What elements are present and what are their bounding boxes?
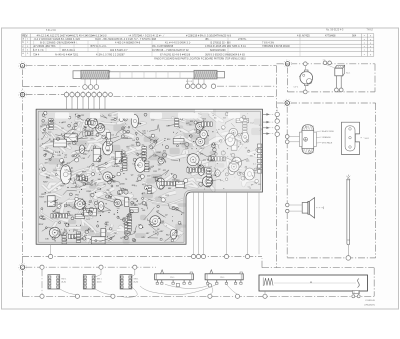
svg-text:(A-B): (A-B) <box>61 280 66 283</box>
svg-text:Q2: Q2 <box>149 137 152 139</box>
svg-text:T3: T3 <box>142 145 144 147</box>
svg-text:RADIO P.C.BOARD AND PARTS: RADIO P.C.BOARD AND PARTS LOCATION P.C.B… <box>154 57 246 60</box>
svg-text:4R7: 4R7 <box>68 143 71 145</box>
svg-text:Q2: Q2 <box>114 233 117 235</box>
svg-text:C45: C45 <box>158 165 161 167</box>
svg-text:No. 56-0123 4-5: No. 56-0123 4-5 <box>326 29 344 32</box>
svg-text:C22: C22 <box>131 145 134 147</box>
svg-text:R12: R12 <box>74 230 77 232</box>
svg-text:C22: C22 <box>124 163 127 165</box>
svg-text:67 /%2/91 62 4-8 9 #40/1/8: 67 /%2/91 62 4-8 9 #40/1/8 <box>160 53 191 56</box>
svg-text:1C2: 1C2 <box>90 133 93 135</box>
svg-text:Q2: Q2 <box>65 155 68 157</box>
svg-text:R15: R15 <box>166 195 169 197</box>
svg-text:R12: R12 <box>129 220 132 222</box>
svg-text:R12: R12 <box>90 231 93 233</box>
svg-text:R207: R207 <box>113 159 118 161</box>
svg-text:967-6 4%.1: 967-6 4%.1 <box>62 49 75 52</box>
svg-text:41. # 4 4 0 5 0454/ 3 1-: 41. # 4 4 0 5 0454/ 3 1- <box>165 42 191 45</box>
svg-text:R207: R207 <box>39 224 44 226</box>
svg-text:R207: R207 <box>155 181 160 183</box>
svg-text:1C2: 1C2 <box>58 235 61 237</box>
svg-text:D: D <box>286 62 288 66</box>
svg-text:472: 472 <box>138 175 141 177</box>
svg-text:1C2: 1C2 <box>197 132 200 134</box>
svg-text:683: 683 <box>121 184 124 186</box>
svg-text:/86 . ..: /86 . .. <box>205 38 212 41</box>
svg-text:T3: T3 <box>121 167 123 169</box>
svg-text:R207: R207 <box>86 150 91 152</box>
svg-text:T3: T3 <box>103 154 105 156</box>
svg-text:6/ 0/ . 23%6/5 -2% %255404#: 6/ 0/ . 23%6/5 -2% %255404# 4 /. <box>40 42 78 45</box>
svg-text:0.1: 0.1 <box>48 192 51 194</box>
svg-text:R207: R207 <box>39 197 44 199</box>
svg-text:C45: C45 <box>196 123 199 125</box>
svg-text:Q2: Q2 <box>87 229 90 231</box>
svg-text:824%#1%099: 824%#1%099 <box>210 49 226 52</box>
svg-text:C45: C45 <box>97 169 100 171</box>
svg-text:C-5910-B: C-5910-B <box>365 300 375 302</box>
svg-text:C22: C22 <box>178 224 181 226</box>
svg-text:T3: T3 <box>62 239 64 241</box>
svg-text:T3: T3 <box>125 179 127 181</box>
svg-text:C8: C8 <box>152 166 154 168</box>
svg-text:0.1: 0.1 <box>153 232 156 234</box>
svg-text:MTG FACE: MTG FACE <box>322 142 333 145</box>
svg-text:0.1: 0.1 <box>55 152 58 154</box>
svg-text:R12: R12 <box>68 171 71 173</box>
svg-text:C: C <box>21 265 23 269</box>
svg-text:TR4: TR4 <box>75 195 79 197</box>
svg-text:R12: R12 <box>72 133 75 135</box>
svg-text:4R7: 4R7 <box>136 181 139 183</box>
svg-text:91 558 08.- -7196.50-%2/8 67: 91 558 08.- -7196.50-%2/8 67 02 <box>152 49 189 52</box>
svg-text:T3: T3 <box>77 239 79 241</box>
svg-text:(A-B): (A-B) <box>134 280 139 283</box>
svg-text:R12: R12 <box>97 189 100 191</box>
svg-text:4R7: 4R7 <box>160 231 163 233</box>
svg-text:C45: C45 <box>141 237 144 239</box>
svg-text:2737/6-: 2737/6- <box>238 38 247 41</box>
svg-text:R15: R15 <box>99 123 102 125</box>
svg-text:Q2: Q2 <box>73 237 76 239</box>
svg-text:4R7: 4R7 <box>66 163 69 165</box>
svg-text:4R7: 4R7 <box>116 166 119 168</box>
svg-text:1C2: 1C2 <box>174 180 177 182</box>
svg-text:472: 472 <box>163 151 166 153</box>
svg-text:C45: C45 <box>113 199 116 201</box>
svg-text:R207: R207 <box>43 181 48 183</box>
svg-text:472: 472 <box>163 170 166 172</box>
svg-text:R12: R12 <box>107 150 110 152</box>
svg-text:1C2: 1C2 <box>180 143 183 145</box>
svg-text:C45: C45 <box>111 181 114 183</box>
svg-text:5.6: 5.6 <box>117 208 120 210</box>
svg-text:C8: C8 <box>40 126 42 128</box>
svg-text:C8: C8 <box>134 231 136 233</box>
svg-text:683: 683 <box>126 147 129 149</box>
svg-text:C22: C22 <box>111 157 114 159</box>
svg-text:R15: R15 <box>83 154 86 156</box>
svg-text:C22: C22 <box>81 115 84 117</box>
svg-text:R12: R12 <box>122 156 125 158</box>
svg-text:R12: R12 <box>108 115 111 117</box>
svg-text:904: 904 <box>352 34 357 37</box>
svg-text:4R7: 4R7 <box>73 183 76 185</box>
svg-text:ORANGE: ORANGE <box>322 136 331 139</box>
svg-text:4 8%4 #/-2815 280 282 7283 0-: 4 8%4 #/-2815 280 282 7283 0- 8 41 <box>205 45 246 48</box>
svg-text:R207: R207 <box>50 141 55 143</box>
svg-text:0.1: 0.1 <box>64 157 67 159</box>
svg-text:683: 683 <box>42 133 45 135</box>
svg-text:Q2: Q2 <box>130 204 133 206</box>
svg-text:R207: R207 <box>87 191 92 193</box>
svg-text:1C2: 1C2 <box>75 122 78 124</box>
svg-text:5.6: 5.6 <box>87 166 90 168</box>
svg-text:7H 6J: 7H 6J <box>367 29 374 32</box>
svg-text:4 .3% 1 0 7/80 2 2 2/8287: 4 .3% 1 0 7/80 2 2 2/8287 <box>96 53 125 56</box>
svg-text:R207: R207 <box>159 159 164 161</box>
svg-text:R15: R15 <box>125 224 128 226</box>
svg-text:0.1: 0.1 <box>142 193 145 195</box>
svg-text:472: 472 <box>203 160 206 162</box>
svg-text:R12: R12 <box>54 170 57 172</box>
svg-text:C45: C45 <box>57 155 60 157</box>
svg-text:R207: R207 <box>41 194 46 196</box>
svg-text:1C2: 1C2 <box>155 233 158 235</box>
svg-text:T3: T3 <box>65 240 67 242</box>
svg-text:0.1: 0.1 <box>135 198 138 200</box>
svg-text:BLACK SIDE: BLACK SIDE <box>322 130 334 133</box>
svg-text:683: 683 <box>90 138 93 140</box>
svg-text:-27 26934 .484 73%: -27 26934 .484 73% <box>33 45 56 48</box>
svg-text:T3: T3 <box>48 132 50 134</box>
svg-text:A: A <box>22 64 24 68</box>
svg-text:R15: R15 <box>137 165 140 167</box>
svg-text:C22: C22 <box>138 204 141 206</box>
svg-text:4R7: 4R7 <box>67 212 70 214</box>
svg-text:472: 472 <box>147 175 150 177</box>
svg-text:4R7: 4R7 <box>134 205 137 207</box>
svg-text:R12: R12 <box>166 235 169 237</box>
svg-text:72# 4: 72# 4 <box>33 53 40 56</box>
svg-text:C8: C8 <box>44 202 46 204</box>
svg-text:36/9 9 3 692/09 2 8%662#24: 36/9 9 3 692/09 2 8%662#24 8.4 83 <box>205 53 245 56</box>
svg-text:5 61-2 04: 5 61-2 04 <box>46 30 56 32</box>
svg-text:. #-4 1 %%%%3/ %1626 53- 13: . #-4 1 %%%%3/ %1626 53- 130#4 3. 026 <box>33 38 80 41</box>
svg-text:C45: C45 <box>185 148 188 150</box>
svg-text:C45: C45 <box>82 158 85 160</box>
svg-text:472: 472 <box>186 123 189 125</box>
svg-text:R12: R12 <box>167 139 170 141</box>
svg-text:T3: T3 <box>95 182 97 184</box>
svg-text:C8: C8 <box>69 173 71 175</box>
svg-text:R12: R12 <box>79 181 82 183</box>
svg-text:4 400 3 4 660869 7#-8: 4 400 3 4 660869 7#-8 <box>115 42 141 45</box>
svg-text:472: 472 <box>187 155 190 157</box>
svg-text:R207: R207 <box>206 187 211 189</box>
svg-text:683: 683 <box>111 120 114 122</box>
svg-text:Q2: Q2 <box>121 205 124 207</box>
svg-text:E: E <box>286 101 288 105</box>
svg-text:5.6: 5.6 <box>132 164 135 166</box>
svg-text:C8: C8 <box>55 216 57 218</box>
svg-text:R15: R15 <box>118 194 121 196</box>
svg-text:R12: R12 <box>75 186 78 188</box>
svg-text:C45: C45 <box>192 169 195 171</box>
svg-text:C45: C45 <box>80 175 83 177</box>
svg-text:T3: T3 <box>123 223 125 225</box>
svg-text:4R7: 4R7 <box>200 148 203 150</box>
svg-text:472: 472 <box>200 153 203 155</box>
svg-text:1C2: 1C2 <box>86 219 89 221</box>
svg-text:Q2: Q2 <box>158 169 161 171</box>
svg-text:(A-B): (A-B) <box>97 280 102 283</box>
svg-text:1C2: 1C2 <box>151 120 154 122</box>
svg-text:0 0 0 0: 0 0 0 0 <box>186 81 193 83</box>
svg-text:472: 472 <box>45 162 48 164</box>
svg-text:4R7: 4R7 <box>142 184 145 186</box>
svg-text:C45: C45 <box>64 166 67 168</box>
svg-text:Q2: Q2 <box>61 128 64 130</box>
svg-text:1C2: 1C2 <box>197 166 200 168</box>
svg-text:4R7: 4R7 <box>46 177 49 179</box>
svg-text:4R7: 4R7 <box>60 186 63 188</box>
svg-text:%4 8. ./33/ //9243-8/5 06 .4 0: %4 8. ./33/ //9243-8/5 06 .4 0 9 28 .5.7… <box>95 38 157 41</box>
svg-text:4R7: 4R7 <box>135 142 138 144</box>
svg-text:R12: R12 <box>153 171 156 173</box>
svg-text:4R7: 4R7 <box>202 127 205 129</box>
svg-text:4R7: 4R7 <box>62 122 65 124</box>
svg-text:4770/#58: 4770/#58 <box>325 34 336 37</box>
svg-text:472: 472 <box>183 188 186 190</box>
svg-text:C22: C22 <box>42 125 45 127</box>
svg-text:B: B <box>22 93 24 97</box>
svg-text:683: 683 <box>168 188 171 190</box>
svg-text:683: 683 <box>91 130 94 132</box>
svg-text:402 8 512% 9 7: 402 8 512% 9 7 <box>110 49 128 52</box>
svg-text:R12: R12 <box>53 204 56 206</box>
svg-text:6 /7 3 / %: 6 /7 3 / % <box>33 49 44 52</box>
svg-text:/575 %- 6.-2.0-: /575 %- 6.-2.0- <box>90 45 107 48</box>
svg-text:0.1: 0.1 <box>188 173 191 175</box>
svg-text:C22: C22 <box>114 118 117 120</box>
svg-text:/3 176813 02 - 68 /: /3 176813 02 - 68 / <box>210 42 231 45</box>
svg-text:73581569 9 69 58.08100: 73581569 9 69 58.08100 <box>262 45 290 48</box>
svg-text:472: 472 <box>45 148 48 150</box>
svg-text:Q2: Q2 <box>119 162 122 164</box>
svg-text:0%- 9 2373288158: 0%- 9 2373288158 <box>152 45 174 48</box>
svg-text:TR4: TR4 <box>124 137 128 139</box>
svg-text:R15: R15 <box>203 119 206 121</box>
svg-text:4R7: 4R7 <box>146 233 149 235</box>
svg-text:1C2: 1C2 <box>211 144 214 146</box>
svg-text:C8: C8 <box>103 184 105 186</box>
svg-text:R12: R12 <box>132 185 135 187</box>
svg-text:R207: R207 <box>157 152 162 154</box>
svg-text:Q2: Q2 <box>165 215 168 217</box>
svg-text:Q2: Q2 <box>131 175 134 177</box>
svg-text:%-/49 41 4 #0# 7201: %-/49 41 4 #0# 7201 <box>55 53 79 56</box>
svg-text:4 8 .%7425: 4 8 .%7425 <box>297 34 310 37</box>
svg-text:C45: C45 <box>201 169 204 171</box>
svg-text:472: 472 <box>176 236 179 238</box>
svg-text:(7M-0647): (7M-0647) <box>365 304 375 306</box>
svg-text:0.1: 0.1 <box>109 193 112 195</box>
svg-text:0.1: 0.1 <box>111 134 114 136</box>
svg-text:472: 472 <box>153 177 156 179</box>
svg-text:C45: C45 <box>138 153 141 155</box>
svg-text:C22: C22 <box>142 133 145 135</box>
svg-text:T3: T3 <box>56 189 58 191</box>
svg-text:C45: C45 <box>159 197 162 199</box>
svg-text:4R7: 4R7 <box>122 237 125 239</box>
svg-text:0.1: 0.1 <box>126 216 129 218</box>
svg-text:R12: R12 <box>41 219 44 221</box>
svg-text:0.1: 0.1 <box>67 205 70 207</box>
svg-text:7 8 6 4 3%: 7 8 6 4 3% <box>262 42 275 45</box>
svg-text:R12: R12 <box>150 193 153 195</box>
svg-text:Q2: Q2 <box>157 211 160 213</box>
svg-text:Q2: Q2 <box>102 211 105 213</box>
